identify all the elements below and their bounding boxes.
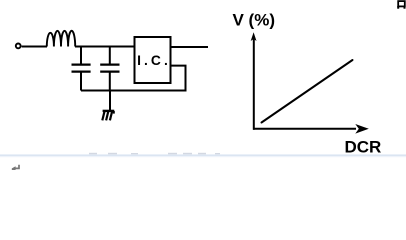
svg-text:DCR: DCR — [345, 138, 382, 157]
svg-text:I.C.: I.C. — [137, 53, 171, 68]
svg-text:V (%): V (%) — [233, 11, 276, 30]
